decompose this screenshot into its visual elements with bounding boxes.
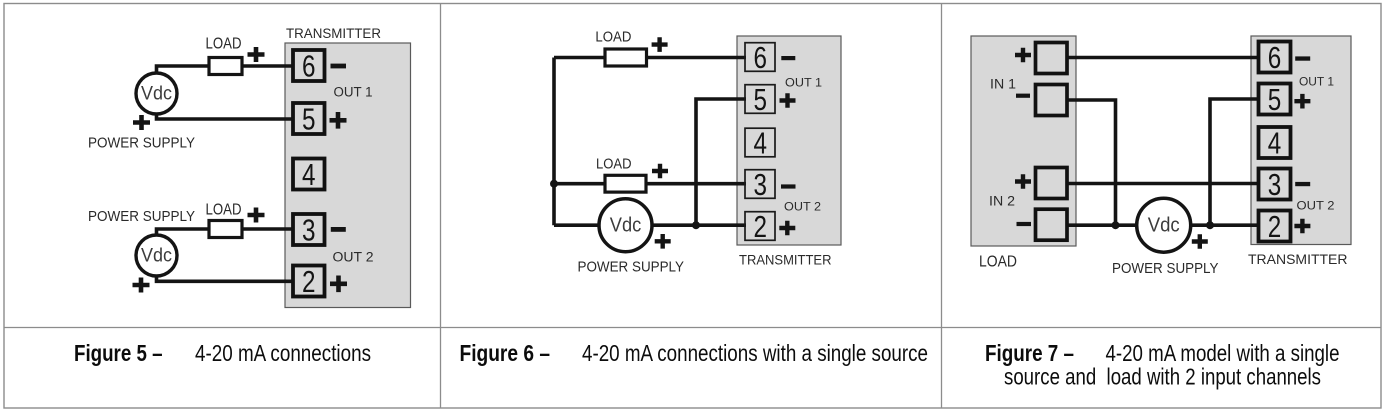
svg-text:POWER SUPPLY: POWER SUPPLY — [88, 135, 195, 152]
svg-text:Vdc: Vdc — [1148, 215, 1180, 237]
terminal 5 — [745, 85, 775, 114]
transmitter body box — [285, 43, 411, 308]
polarity plus after load 2 — [248, 208, 265, 223]
transmitter body box — [737, 36, 841, 245]
svg-text:4-20 mA connections with a sin: 4-20 mA connections with a single source — [582, 340, 928, 366]
svg-text:source and load with 2 input: source and load with 2 input channels — [1004, 364, 1321, 390]
svg-text:2: 2 — [753, 209, 767, 244]
wire: IN1- drop to Vdc input — [1067, 100, 1116, 225]
svg-text:TRANSMITTER: TRANSMITTER — [286, 25, 381, 41]
junction node at Vdc input — [1112, 221, 1120, 229]
svg-text:6: 6 — [302, 48, 316, 83]
svg-text:OUT 1: OUT 1 — [1299, 75, 1334, 89]
junction node at Vdc output — [1206, 221, 1214, 229]
table divider between figure 6 and 7 — [941, 4, 943, 409]
svg-text:3: 3 — [753, 167, 767, 202]
svg-text:4: 4 — [753, 125, 767, 160]
terminal 4 — [745, 128, 775, 157]
svg-text:POWER SUPPLY: POWER SUPPLY — [578, 259, 685, 276]
terminal 2 — [745, 212, 775, 241]
svg-text:LOAD: LOAD — [595, 28, 631, 45]
svg-text:LOAD: LOAD — [206, 201, 242, 218]
svg-text:2: 2 — [302, 264, 316, 299]
wire: bus to Vdc left — [554, 223, 600, 227]
polarity plus after load 1 — [652, 37, 668, 52]
polarity plus at IN2+ — [1015, 174, 1031, 189]
terminal 2 — [1259, 211, 1291, 242]
svg-text:LOAD: LOAD — [979, 254, 1017, 271]
polarity plus at terminal 2 — [1294, 219, 1310, 234]
wire: top load to terminal 6 — [554, 56, 746, 60]
polarity minus at terminal 3 — [331, 227, 346, 232]
svg-text:Vdc: Vdc — [141, 84, 172, 105]
polarity minus at terminal 3 — [1295, 182, 1310, 186]
transmitter body box — [1251, 36, 1351, 245]
polarity plus at terminal 2 — [779, 221, 795, 236]
power supply source Vdc — [599, 199, 652, 252]
wire: IN2+ to terminal 3 — [1067, 182, 1259, 186]
resistor LOAD 1 — [605, 49, 647, 66]
terminal 3 — [1259, 169, 1291, 200]
terminal 5 — [293, 103, 325, 134]
svg-text:POWER SUPPLY: POWER SUPPLY — [1112, 260, 1219, 277]
polarity plus at terminal 5 — [780, 93, 796, 108]
svg-text:4-20 mA connections: 4-20 mA connections — [195, 340, 371, 366]
power supply source Vdc — [1137, 198, 1191, 252]
wire: Vdc2 top to terminal 3 through load — [157, 229, 295, 236]
svg-text:6: 6 — [753, 40, 767, 75]
svg-text:6: 6 — [1268, 40, 1282, 75]
polarity plus at Vdc2 output — [133, 278, 150, 293]
polarity minus at terminal 3 — [781, 184, 796, 188]
table caption row divider — [4, 327, 1381, 329]
junction node on terminal 2 wire — [692, 221, 700, 229]
power supply source Vdc2 — [136, 235, 177, 276]
input terminal IN1+ — [1036, 43, 1068, 74]
svg-text:5: 5 — [302, 101, 316, 136]
wire: Vdc right to terminal 2 — [1190, 223, 1259, 227]
resistor LOAD (out2) — [209, 221, 242, 238]
terminal 6 — [1259, 42, 1291, 73]
wire: Vdc right to terminal 2 — [650, 223, 746, 227]
svg-text:5: 5 — [1268, 82, 1282, 117]
svg-text:Figure 7 –: Figure 7 – — [985, 340, 1074, 366]
terminal 4 — [1259, 127, 1291, 158]
wire: bus to terminal 3 through load 2 — [554, 182, 746, 186]
input terminal IN2+ — [1036, 168, 1068, 199]
svg-text:OUT 1: OUT 1 — [334, 85, 373, 100]
svg-text:IN 2: IN 2 — [989, 194, 1015, 209]
polarity plus at terminal 2 — [330, 276, 347, 293]
svg-text:TRANSMITTER: TRANSMITTER — [739, 252, 832, 268]
load body box — [971, 36, 1076, 246]
polarity plus at Vdc1 output — [133, 115, 150, 130]
svg-text:3: 3 — [302, 212, 316, 247]
svg-text:OUT 2: OUT 2 — [1297, 199, 1335, 213]
polarity plus at terminal 5 — [330, 112, 347, 129]
polarity minus at terminal 6 — [331, 64, 347, 69]
terminal 6 — [745, 43, 775, 72]
svg-text:3: 3 — [1268, 167, 1282, 202]
terminal 2 — [293, 266, 325, 297]
polarity plus at terminal 5 — [1294, 94, 1310, 109]
svg-text:Figure 5 –: Figure 5 – — [74, 340, 163, 366]
terminal 6 — [293, 50, 325, 81]
terminal 3 — [745, 170, 775, 199]
terminal 5 — [1259, 84, 1291, 115]
polarity plus at Vdc output — [1192, 234, 1208, 249]
svg-text:IN 1: IN 1 — [990, 77, 1016, 92]
svg-text:POWER SUPPLY: POWER SUPPLY — [88, 208, 195, 225]
svg-text:2: 2 — [1268, 209, 1282, 244]
polarity minus at terminal 6 — [1295, 56, 1310, 60]
polarity minus at IN1- — [1016, 94, 1030, 98]
svg-text:Figure 6 –: Figure 6 – — [460, 340, 551, 366]
input terminal IN2- — [1036, 209, 1068, 240]
junction node on bus at load 2 — [550, 180, 558, 188]
wire: Vdc1 bottom to terminal 5 — [157, 113, 295, 119]
wire: terminal 5 drop to Vdc output — [696, 99, 746, 225]
polarity minus at terminal 6 — [781, 56, 795, 60]
resistor LOAD (out1) — [209, 58, 242, 75]
wire: IN2- to Vdc left — [1067, 223, 1137, 227]
svg-text:LOAD: LOAD — [206, 36, 242, 53]
wire: left bus vertical — [552, 58, 556, 226]
wire: terminal 5 drop to Vdc output — [1210, 99, 1259, 225]
svg-text:OUT 2: OUT 2 — [784, 200, 821, 214]
power supply source Vdc1 — [136, 73, 177, 114]
svg-text:Vdc: Vdc — [141, 246, 172, 267]
polarity plus at Vdc output — [655, 234, 671, 249]
terminal 3 — [293, 214, 325, 245]
table divider between figure 5 and 6 — [440, 4, 442, 409]
terminal 4 — [293, 159, 325, 190]
svg-text:LOAD: LOAD — [596, 156, 632, 173]
svg-text:Vdc: Vdc — [610, 215, 642, 237]
svg-text:4-20 mA model with a single: 4-20 mA model with a single — [1106, 340, 1340, 366]
svg-text:OUT 2: OUT 2 — [333, 250, 374, 265]
polarity plus after load 2 — [652, 164, 668, 179]
wire: IN1+ to terminal 6 — [1067, 56, 1259, 60]
wire: Vdc1 top to terminal 6 through load — [157, 66, 295, 75]
svg-text:OUT 1: OUT 1 — [785, 76, 822, 90]
input terminal IN1- — [1036, 85, 1068, 116]
polarity minus at IN2- — [1017, 222, 1032, 226]
resistor LOAD 2 — [605, 175, 646, 192]
svg-text:5: 5 — [753, 82, 767, 117]
svg-text:TRANSMITTER: TRANSMITTER — [1248, 251, 1348, 267]
wire: Vdc2 bottom to terminal 2 — [157, 275, 295, 281]
polarity plus after load 1 — [248, 47, 265, 62]
svg-text:4: 4 — [302, 157, 316, 192]
polarity plus at IN1+ — [1015, 48, 1031, 63]
svg-text:4: 4 — [1268, 125, 1282, 160]
